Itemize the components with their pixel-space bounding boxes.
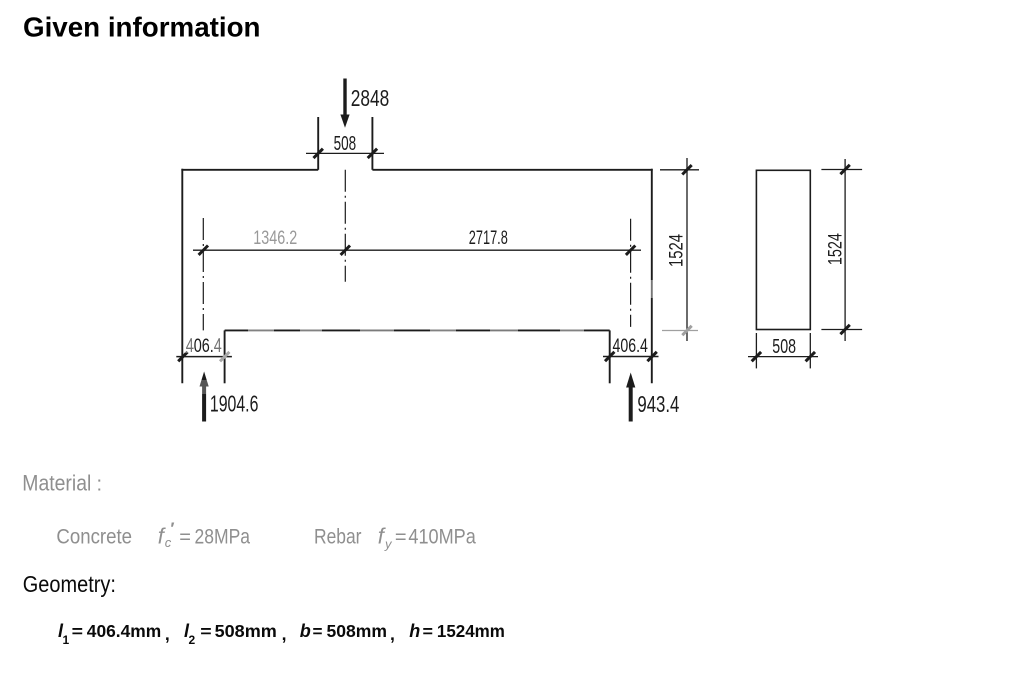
- svg-text:h: h: [409, 621, 420, 641]
- svg-text:406.4mm: 406.4mm: [87, 621, 161, 641]
- f'c = 28MPa: [158, 519, 251, 550]
- svg-text:Given information: Given information: [23, 12, 261, 43]
- svg-text:,: ,: [282, 624, 287, 644]
- reaction arrow 943.4: [626, 373, 635, 422]
- extension line (grayed by watermark): [662, 330, 698, 332]
- column stub left side: [317, 117, 319, 170]
- bottom notch right vertical: [609, 330, 611, 383]
- fy = 410MPa: [378, 523, 476, 551]
- center line right support: [630, 219, 632, 327]
- svg-text:=: =: [179, 526, 191, 548]
- svg-text:1524: 1524: [825, 233, 847, 265]
- load arrow 2848: [340, 79, 349, 128]
- watermark lightening patches: [185, 280, 656, 394]
- svg-text:Rebar: Rebar: [314, 525, 362, 548]
- center line left support: [202, 218, 204, 330]
- svg-text:406.4: 406.4: [613, 335, 649, 357]
- svg-text:508: 508: [334, 133, 357, 155]
- tick (grayed by watermark): [682, 326, 691, 335]
- svg-text:y: y: [384, 537, 393, 552]
- center line column: [344, 170, 346, 282]
- svg-text:1904.6: 1904.6: [210, 391, 259, 417]
- dimension 1524 (beam height): [660, 158, 699, 341]
- beam top edge right segment: [372, 169, 652, 171]
- dimension line 1346.2 / 2717.8: [193, 249, 641, 251]
- beam left edge: [181, 169, 183, 383]
- svg-text:28MPa: 28MPa: [195, 525, 251, 548]
- svg-text:508mm: 508mm: [215, 621, 277, 641]
- beam bottom edge: [225, 329, 610, 331]
- dimension 406.4 right: [603, 356, 659, 358]
- svg-text:=: =: [423, 622, 434, 641]
- dimension 1524 (section): [821, 159, 862, 341]
- dimension 406.4 left: [176, 356, 232, 358]
- svg-text:508mm: 508mm: [327, 621, 388, 641]
- svg-text:Concrete: Concrete: [56, 525, 132, 548]
- svg-text:943.4: 943.4: [637, 391, 679, 417]
- svg-text:=: =: [395, 526, 407, 548]
- geometry formula line: [58, 621, 505, 647]
- reaction arrow 1904.6: [200, 372, 209, 422]
- svg-text:2717.8: 2717.8: [469, 228, 508, 249]
- tick (grayed by watermark): [220, 352, 229, 361]
- svg-text:,: ,: [390, 624, 395, 644]
- beam top edge left segment: [181, 169, 318, 171]
- svg-text:=: =: [313, 622, 323, 641]
- svg-text:2: 2: [189, 633, 196, 647]
- cross-section rectangle: [756, 170, 810, 329]
- svg-text:508: 508: [772, 336, 796, 358]
- svg-text:=: =: [200, 622, 211, 641]
- beam elevation outline: [181, 117, 652, 383]
- svg-text:1: 1: [63, 633, 70, 647]
- svg-text:Geometry:: Geometry:: [23, 571, 116, 597]
- beam right edge: [651, 169, 653, 383]
- svg-text:1524: 1524: [665, 234, 687, 267]
- svg-text:=: =: [72, 622, 83, 641]
- dimension 508 (section width): [748, 333, 818, 368]
- svg-text:1524mm: 1524mm: [437, 621, 505, 641]
- svg-text:,: ,: [165, 624, 170, 644]
- svg-text::: :: [97, 474, 103, 496]
- svg-text:′: ′: [170, 519, 175, 538]
- svg-text:b: b: [300, 621, 311, 641]
- dimension 508 (column): [306, 152, 384, 154]
- svg-text:1346.2: 1346.2: [253, 228, 297, 249]
- svg-text:410MPa: 410MPa: [408, 525, 476, 548]
- svg-text:2848: 2848: [351, 85, 390, 111]
- column stub right side: [371, 117, 373, 170]
- svg-text:Material: Material: [22, 471, 91, 496]
- bottom notch left vertical: [224, 330, 226, 383]
